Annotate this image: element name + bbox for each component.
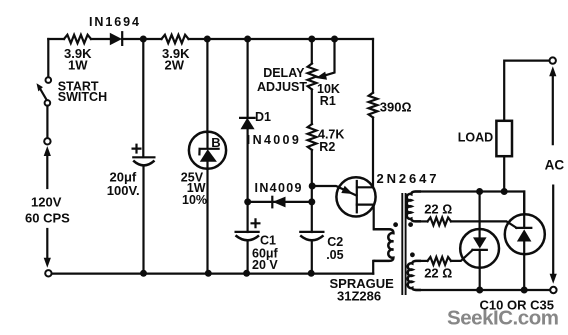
resistor R2 4.7K <box>308 124 317 150</box>
node junction bottom D <box>308 270 315 277</box>
node junction diode line left <box>244 198 251 205</box>
node junction diode line right <box>308 198 315 205</box>
svg-text:20 V: 20 V <box>252 258 278 272</box>
svg-text:SeekIC.com: SeekIC.com <box>447 307 559 330</box>
diode D1 1N4009 <box>240 118 255 130</box>
switch terminal lower <box>45 100 51 106</box>
svg-text:IN4009: IN4009 <box>247 133 299 147</box>
transformer T1 primary winding <box>373 229 393 261</box>
wire D1 column bottom <box>247 129 249 202</box>
svg-text:1W: 1W <box>68 58 88 73</box>
source terminal top <box>44 138 50 144</box>
wire secondary top to 22 ohm <box>416 220 428 222</box>
node junction bottom A <box>140 270 147 277</box>
capacitor 20uf 100V <box>133 145 155 166</box>
svg-text:B: B <box>211 135 220 150</box>
wire zener column top <box>206 39 208 133</box>
terminal top right <box>550 57 556 63</box>
AC source arrow down <box>550 186 557 284</box>
svg-text:SWITCH: SWITCH <box>58 90 107 104</box>
node junction bottom B <box>205 270 212 277</box>
transformer primary phase dot <box>393 222 398 227</box>
wire 390 ohm to UJT B2 <box>357 118 373 188</box>
wire top rail left segment <box>48 38 64 40</box>
wire bottom rail <box>52 273 374 275</box>
node junction SCR2 bottom <box>521 287 528 294</box>
source terminal bottom <box>45 270 51 276</box>
svg-text:.05: .05 <box>326 248 343 262</box>
wire 390 ohm top lead <box>372 39 374 93</box>
svg-text:ADJUST: ADJUST <box>257 80 307 94</box>
wire primary bottom to rail <box>373 261 374 274</box>
svg-text:DELAY: DELAY <box>263 66 305 80</box>
resistor 22 ohm upper <box>428 218 452 226</box>
svg-text:22 Ω: 22 Ω <box>424 265 452 280</box>
switch terminal upper <box>46 77 52 83</box>
svg-text:D1: D1 <box>255 110 271 124</box>
node junction bottom C <box>243 270 250 277</box>
svg-text:22 Ω: 22 Ω <box>424 202 452 217</box>
node junction load bottom <box>501 188 508 195</box>
wire D1 column top <box>247 39 249 118</box>
wire 20uf capacitor column bottom <box>142 166 144 274</box>
node junction top A <box>140 36 147 43</box>
resistor 390 ohm <box>369 93 378 118</box>
wire 22 ohm to SCR2 gate <box>451 221 517 228</box>
wire top rail right segment <box>189 38 374 40</box>
wire UJT B1 to transformer primary <box>374 205 390 230</box>
svg-text:C1: C1 <box>260 234 276 248</box>
thyristor SCR1 (left, C10 or C35) <box>460 192 499 291</box>
svg-text:R1: R1 <box>320 94 336 108</box>
wire 20uf capacitor column top <box>142 39 144 157</box>
node junction top E <box>331 36 338 43</box>
120V source arrow down <box>44 229 51 268</box>
capacitor C1 60uf 20V <box>236 202 260 274</box>
wire zener column bottom <box>206 169 208 274</box>
thyristor SCR2 (right, C10 or C35) <box>505 192 545 291</box>
svg-text:10%: 10% <box>182 193 207 207</box>
svg-text:120V: 120V <box>31 195 62 210</box>
R1 wiper arrow <box>316 39 335 80</box>
transformer core <box>402 193 405 295</box>
diode 1N4009 horizontal <box>272 197 285 208</box>
potentiometer R1 10K <box>308 64 317 90</box>
terminal bottom right <box>550 287 556 293</box>
secondary top phase dot <box>408 222 413 227</box>
node junction top C <box>244 36 251 43</box>
wire R1 top lead <box>311 39 313 64</box>
start switch arm <box>37 83 47 100</box>
reference diode B (zener in circle) <box>189 132 226 169</box>
wire horizontal diode line <box>248 201 312 203</box>
node junction SCR1 bottom <box>476 287 483 294</box>
node junction SCR1 top <box>476 188 483 195</box>
wire switch to source <box>46 106 48 138</box>
svg-text:100V.: 100V. <box>107 183 140 198</box>
transformer secondary bottom winding <box>408 261 421 290</box>
svg-text:60 CPS: 60 CPS <box>25 211 70 226</box>
load box <box>496 121 512 156</box>
svg-text:IN1694: IN1694 <box>89 15 139 29</box>
transistor Q1 2N2647 UJT <box>312 177 375 216</box>
svg-text:LOAD: LOAD <box>458 130 493 144</box>
svg-text:C2: C2 <box>327 235 343 249</box>
svg-text:IN4009: IN4009 <box>255 181 302 195</box>
wire left rail to switch <box>47 39 49 77</box>
wire 22 ohm to SCR1 gate <box>451 250 473 261</box>
node junction emitter <box>309 183 316 190</box>
wire top right rail <box>416 192 525 215</box>
wire R2 to emitter node <box>311 150 313 202</box>
120V source arrow up <box>44 146 51 188</box>
node junction top B <box>204 36 211 43</box>
AC source arrow up <box>549 66 556 144</box>
resistor 3.9K 2W <box>162 35 189 43</box>
wire secondary bottom to 22 ohm <box>416 260 428 262</box>
wire between R and diode <box>91 38 110 40</box>
node junction top D <box>308 36 315 43</box>
wire top rail mid <box>143 38 161 40</box>
svg-text:2W: 2W <box>165 58 185 73</box>
wire R1 to R2 <box>311 90 313 125</box>
svg-text:R2: R2 <box>319 140 335 154</box>
transformer secondary top winding <box>407 192 421 222</box>
resistor 3.9K 1W <box>64 35 91 43</box>
diode 1N1694 <box>110 32 144 45</box>
wire bottom right rail <box>416 289 550 291</box>
svg-text:390Ω: 390Ω <box>380 99 412 114</box>
secondary bottom phase dot <box>410 252 415 257</box>
capacitor C2 .05 <box>300 202 323 274</box>
svg-text:AC: AC <box>545 158 565 173</box>
svg-text:31Z286: 31Z286 <box>337 289 381 304</box>
resistor 22 ohm lower <box>428 257 452 265</box>
wire load column <box>504 61 549 192</box>
